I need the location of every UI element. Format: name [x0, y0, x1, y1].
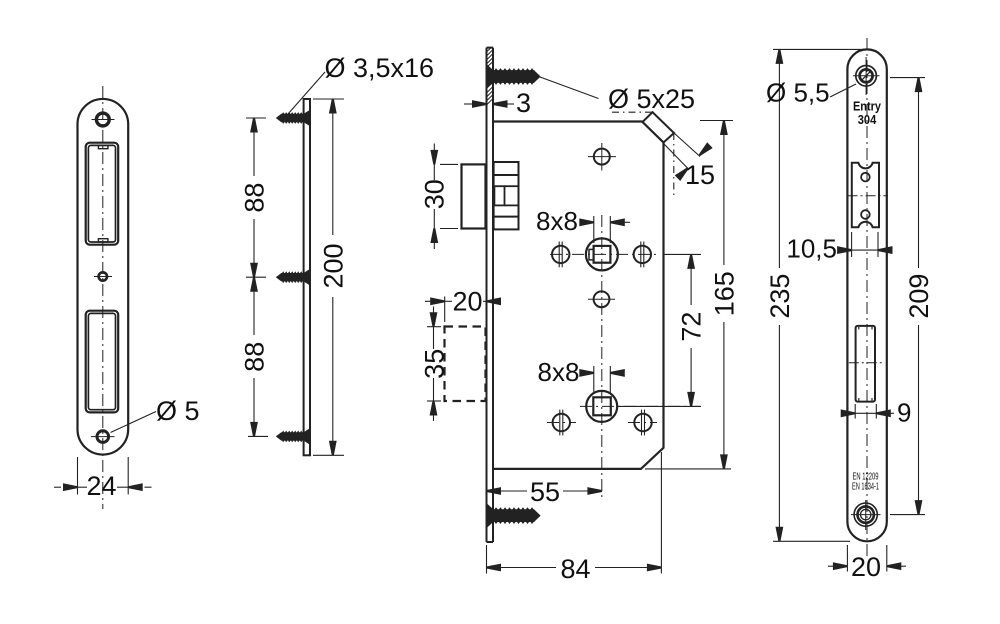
lower follower square: [593, 397, 611, 415]
screw S1 top: [276, 110, 310, 127]
svg-text:35: 35: [419, 349, 449, 379]
chamfer 15 extension line A: [674, 133, 700, 157]
svg-text:20: 20: [851, 552, 881, 582]
svg-text:304: 304: [858, 113, 877, 127]
side plate: [304, 99, 310, 455]
strike plate top screw hole: [96, 113, 109, 126]
hatching below screw: [487, 87, 494, 106]
lower left hole: [553, 414, 570, 431]
dimension 165 line: [723, 121, 725, 266]
chamfer 15 extension line B: [664, 144, 688, 169]
svg-text:15: 15: [685, 160, 715, 190]
strike plate middle hole: [99, 272, 107, 280]
svg-text:Ø 5,5: Ø 5,5: [766, 78, 830, 108]
dimension 84 extension lines: [486, 545, 488, 574]
dimension 88 upper line: [253, 118, 255, 176]
strike plate upper cutout top tab: [98, 145, 108, 148]
strike plate bottom screw hole: [97, 431, 109, 443]
svg-text:235: 235: [765, 274, 795, 319]
screw S3 bottom: [276, 428, 310, 445]
strike plate upper cutout outer: [86, 143, 119, 245]
faceplate top screw hole: [856, 66, 877, 87]
upper horizontal centerline: [550, 253, 658, 255]
svg-text:165: 165: [709, 271, 739, 316]
chamfer 15 arrow 1: [698, 144, 711, 157]
lower horizontal centerline follower: [580, 405, 700, 407]
faceplate outline: [847, 49, 886, 541]
screw S2 middle: [276, 269, 310, 286]
strike plate outline: [78, 99, 129, 455]
svg-text:3: 3: [516, 88, 531, 118]
dimension 55: [487, 490, 528, 492]
dimension 88 lower line: [254, 276, 277, 278]
dimension 84 line: [487, 567, 557, 569]
dimension 9: [854, 404, 856, 419]
dash-dot into band: [612, 111, 653, 113]
dimension 20: [444, 297, 446, 323]
leader diameter 5: [111, 412, 157, 433]
dimension 88 upper extension lines: [246, 117, 266, 119]
svg-text:EN 1634-1: EN 1634-1: [852, 482, 879, 493]
dimension 72 line: [690, 254, 692, 305]
faceplate deadbolt cutout: [856, 326, 875, 402]
svg-text:Ø 5x25: Ø 5x25: [608, 84, 695, 114]
lower follower circle: [586, 391, 617, 422]
dimension 35: [427, 326, 441, 328]
dimension 209 extension lines: [890, 77, 925, 79]
svg-text:9: 9: [897, 398, 911, 428]
dimension 235 extension lines: [773, 48, 866, 50]
svg-text:55: 55: [530, 477, 560, 507]
strike plate upper cutout bottom tab: [98, 239, 108, 242]
faceplate latch cutout: [852, 163, 879, 228]
svg-text:88: 88: [240, 183, 270, 213]
svg-text:8x8: 8x8: [536, 206, 578, 236]
centerline faceplate: [866, 38, 868, 560]
latch bolt outer: [462, 164, 486, 228]
lock faceplate right line: [492, 48, 494, 542]
svg-text:20: 20: [452, 287, 482, 317]
dimension 10,5: [851, 232, 853, 257]
svg-text:Ø 3,5x16: Ø 3,5x16: [325, 53, 435, 83]
dimension 72 extension lines: [664, 253, 701, 255]
leader diameter 5x25: [540, 77, 599, 99]
dimension 200 line: [332, 99, 334, 235]
strike plate lower cutout outer: [86, 311, 119, 413]
svg-text:84: 84: [560, 554, 590, 584]
svg-text:Ø 5: Ø 5: [156, 396, 200, 426]
deadbolt dashed: [445, 327, 486, 402]
screw B1 top: [487, 64, 541, 89]
svg-text:Entry: Entry: [853, 100, 881, 114]
svg-text:8x8: 8x8: [538, 357, 580, 387]
svg-text:88: 88: [240, 342, 270, 372]
svg-text:72: 72: [677, 312, 707, 342]
top hole: [594, 149, 610, 165]
dimension 30: [440, 163, 458, 165]
leader diameter 5,5: [830, 84, 856, 97]
svg-text:24: 24: [86, 471, 116, 501]
dimension 8x8 upper: [593, 216, 595, 243]
svg-text:200: 200: [318, 243, 348, 288]
faceplate bottom screw hole: [854, 503, 877, 526]
strike plate lower cutout inner: [88, 313, 115, 409]
lower right hole: [634, 414, 651, 431]
middle hole: [594, 291, 610, 307]
hatching above screw: [487, 48, 494, 67]
latch inner block: [494, 162, 519, 229]
dimension 24 line: [78, 486, 88, 488]
lock faceplate top cap: [487, 47, 494, 49]
upper follower circle: [586, 238, 618, 270]
upper follower notch: [589, 249, 594, 260]
dimension 20 extension lines: [846, 545, 848, 572]
chamfer 15 vertical dashed extension: [673, 133, 675, 197]
upper left hole: [552, 246, 569, 263]
dimension 3: [464, 103, 473, 105]
strike plate upper cutout inner: [88, 145, 115, 242]
dimension 209 line: [918, 78, 920, 268]
dimension 200 extension lines: [313, 98, 344, 100]
corner chamfer band: [642, 112, 674, 142]
svg-text:10,5: 10,5: [786, 234, 837, 264]
centerline strike plate: [102, 86, 104, 509]
vertical centerline lock: [601, 215, 603, 497]
svg-text:209: 209: [904, 274, 934, 319]
dimension 165 extension lines: [700, 120, 733, 122]
lock faceplate left line: [486, 48, 488, 542]
chamfer 15 arrow 2: [676, 166, 689, 179]
svg-text:30: 30: [420, 179, 450, 209]
upper right hole: [634, 246, 651, 263]
lock faceplate bottom cap: [487, 541, 494, 543]
dimension 8x8 lower: [593, 366, 595, 394]
lock case outline: [493, 122, 664, 469]
dimension 24 extension lines: [77, 457, 79, 495]
leader diameter 3,5x16: [288, 72, 325, 114]
upper follower square: [594, 246, 611, 263]
dimension 20 line: [828, 565, 834, 567]
screw B2 bottom: [487, 503, 541, 528]
dimension 235 line: [778, 49, 780, 268]
